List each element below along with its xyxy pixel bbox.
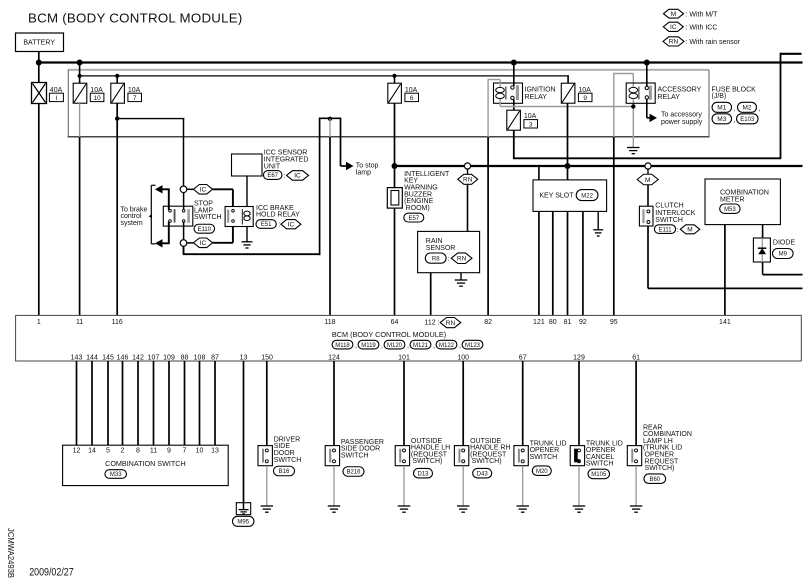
svg-text:118: 118: [324, 319, 335, 326]
svg-text:M: M: [671, 11, 676, 18]
svg-text:SWITCH: SWITCH: [341, 452, 369, 459]
ground M95 (boxed): [232, 503, 254, 527]
bus 1 (battery supply): [39, 61, 803, 63]
top-right exit stub: [781, 53, 802, 55]
combination switch M33: [63, 445, 229, 485]
svg-text:5: 5: [106, 447, 110, 454]
svg-text:7: 7: [183, 447, 187, 454]
wire battery down: [38, 52, 40, 83]
svg-text:67: 67: [519, 354, 527, 361]
svg-text:E110: E110: [198, 227, 212, 233]
svg-text:144: 144: [86, 354, 98, 361]
svg-text:1: 1: [37, 319, 41, 326]
svg-text:2009/02/27: 2009/02/27: [29, 566, 73, 578]
svg-text:JCMWA2493B: JCMWA2493B: [6, 528, 15, 578]
ground B16: [261, 505, 274, 507]
wire to brake control top: [168, 189, 170, 210]
svg-text:141: 141: [719, 319, 731, 326]
fuse 10A 10: [73, 83, 104, 103]
wire buzzer to BCM pin 64: [394, 208, 396, 315]
wire BCM to M105 switch: [578, 361, 580, 446]
svg-text:D43: D43: [477, 471, 489, 477]
riser up to bracket: [319, 118, 321, 255]
svg-text:M123: M123: [465, 343, 481, 349]
svg-text:RN: RN: [457, 256, 467, 263]
wire M20 to ground: [522, 466, 524, 506]
wire fuse3 line to right: [513, 157, 781, 159]
wire accessory output to arrow: [646, 99, 648, 118]
svg-text:,: ,: [734, 117, 736, 124]
fuse 10A 3: [507, 110, 538, 130]
svg-text:10: 10: [196, 447, 204, 454]
svg-text:SENSOR: SENSOR: [426, 245, 456, 252]
switch B216: [325, 439, 384, 476]
svg-text:M118: M118: [335, 343, 350, 349]
wire BCM to D13 switch: [403, 361, 405, 446]
svg-text:13: 13: [211, 447, 219, 454]
wire B60 to ground: [635, 466, 637, 506]
svg-text:(J/B): (J/B): [712, 93, 727, 100]
accessory relay: [626, 83, 701, 103]
svg-text:IC: IC: [670, 24, 677, 31]
svg-text:E57: E57: [408, 216, 419, 222]
svg-text:M: M: [687, 227, 692, 234]
wire switch right pole down: [183, 222, 185, 241]
RN hexagon rain sensor variant: [458, 174, 478, 184]
svg-text:3: 3: [529, 121, 533, 128]
M hexagon clutch variant: [637, 174, 658, 185]
key slot M22: [533, 180, 607, 212]
wire B216 to ground: [333, 466, 335, 506]
svg-text:BATTERY: BATTERY: [23, 39, 55, 46]
svg-text:R8: R8: [432, 256, 440, 262]
svg-text:RELAY: RELAY: [525, 94, 548, 101]
IC hexagon variant bottom: [193, 238, 212, 248]
fuse 10A 9: [561, 83, 592, 103]
svg-text:SWITCH: SWITCH: [530, 454, 558, 461]
svg-text:142: 142: [132, 354, 144, 361]
svg-text:M1: M1: [717, 105, 726, 112]
svg-text:M33: M33: [110, 472, 122, 478]
wire J/B bus to fuse 6: [394, 76, 396, 84]
wire to BCM pin 118: [329, 137, 331, 315]
label intelligent key warning buzzer: [404, 171, 450, 212]
svg-text:150: 150: [261, 354, 273, 361]
svg-text:M120: M120: [387, 343, 403, 349]
gray J/B segment pin118: [329, 119, 331, 137]
clutch interlock switch E111: [639, 203, 699, 234]
fuse block J/B outline: [68, 69, 710, 71]
J/B internal bus: [80, 75, 569, 77]
svg-text:system: system: [121, 220, 143, 227]
svg-text:E51: E51: [261, 222, 272, 228]
svg-text:112 :: 112 :: [424, 319, 439, 326]
junction bus2 fuse6/buzzer: [392, 163, 398, 169]
wire clutch to right exit: [648, 287, 803, 289]
svg-text:101: 101: [398, 354, 410, 361]
wire return to riser: [183, 253, 320, 255]
battery B1: [16, 33, 64, 52]
svg-text:80: 80: [549, 319, 557, 326]
wire M hex to clutch switch: [647, 185, 649, 206]
wire BCM to B16 switch: [266, 361, 268, 446]
svg-text:143: 143: [71, 354, 83, 361]
ignition relay: [494, 83, 556, 103]
svg-text:109: 109: [163, 354, 175, 361]
wire circle2 to hex: [187, 242, 194, 244]
svg-text:E67: E67: [267, 173, 278, 179]
wire relay coil to ground: [246, 227, 248, 242]
wire pin82 to BCM: [487, 137, 489, 315]
svg-text:RN: RN: [446, 320, 456, 327]
svg-text:RN: RN: [669, 39, 679, 46]
svg-text:SWITCH): SWITCH): [412, 458, 442, 465]
svg-text:IC: IC: [288, 222, 295, 229]
legend M: with M/T: [664, 9, 719, 18]
svg-text:: With ICC: : With ICC: [686, 24, 718, 31]
svg-text:COMBINATION: COMBINATION: [720, 189, 769, 196]
rain sensor R8: [418, 231, 480, 272]
svg-text:SWITCH): SWITCH): [472, 458, 502, 465]
svg-text:,: ,: [734, 106, 736, 113]
wire bus1 to accessory contact: [646, 63, 648, 87]
wire fuse10 to BCM pin 11: [79, 137, 81, 315]
BCM box (body control module): [16, 315, 802, 361]
svg-text:6: 6: [410, 95, 414, 102]
gray wire pin82 to ignition coil: [487, 80, 489, 138]
svg-text:,: ,: [459, 343, 461, 350]
junction stop lamp net: [328, 117, 332, 121]
svg-text:64: 64: [391, 319, 399, 326]
junction bus1 accessory relay: [644, 60, 650, 66]
wire branch to stop lamp switch: [117, 118, 184, 120]
svg-text:107: 107: [148, 354, 160, 361]
ICC brake hold relay E51: [225, 205, 301, 229]
svg-text:61: 61: [632, 354, 640, 361]
svg-text:129: 129: [573, 354, 585, 361]
bracket to brake control system: [150, 185, 152, 244]
wire BCM to D43 switch: [462, 361, 464, 446]
switch M105: [570, 440, 623, 478]
svg-text:B60: B60: [649, 477, 660, 483]
gray wire pin95 to accessory coil: [613, 74, 615, 138]
junction battery/bus1: [36, 60, 42, 66]
svg-text:M119: M119: [361, 343, 376, 349]
wire IC hex to relay contact: [213, 188, 233, 190]
wire circle to M hex: [647, 169, 649, 174]
svg-text:M22: M22: [581, 193, 593, 199]
svg-text:88: 88: [181, 354, 189, 361]
connectors M118-M123: [332, 340, 353, 349]
svg-text:11: 11: [76, 319, 83, 326]
wire pin95 to BCM: [613, 137, 615, 315]
wire BCM pin13 to M95: [243, 361, 245, 503]
switch D13: [395, 438, 450, 478]
wire bus1 to J/B bus: [79, 63, 81, 84]
svg-text:I: I: [55, 95, 57, 102]
switch M20: [514, 440, 567, 475]
IC hexagon variant top: [193, 185, 212, 195]
switch B16: [258, 436, 301, 475]
svg-text:,: ,: [433, 343, 435, 350]
svg-text:B216: B216: [346, 470, 361, 476]
svg-text:9: 9: [583, 95, 587, 102]
svg-text:power supply: power supply: [661, 119, 703, 126]
svg-text:To accessory: To accessory: [661, 111, 702, 118]
junction fuse7 branch: [115, 116, 119, 120]
svg-text:14: 14: [88, 447, 96, 454]
wire battery to BCM pin 1: [38, 104, 40, 316]
svg-text:116: 116: [112, 319, 123, 326]
svg-text:HOLD RELAY: HOLD RELAY: [256, 212, 300, 219]
wire RN hex to rain sensor: [467, 184, 469, 231]
svg-text:B16: B16: [279, 469, 290, 475]
key slot outputs to BCM 121 80 81 92: [538, 211, 540, 315]
svg-text:UNIT: UNIT: [264, 164, 281, 171]
wire to brake control bottom: [168, 222, 170, 244]
svg-text:: With M/T: : With M/T: [686, 11, 719, 18]
svg-text:SWITCH: SWITCH: [194, 214, 222, 221]
svg-text:146: 146: [117, 354, 129, 361]
wire fuse6 down to bus2: [394, 103, 396, 166]
svg-text:81: 81: [564, 319, 572, 326]
ground M20: [516, 505, 529, 507]
node circle rain sensor variant: [464, 163, 470, 169]
wire rain sensor ground: [460, 273, 462, 280]
combination meter M53: [705, 179, 780, 225]
wire fuse3 output: [513, 130, 515, 158]
legend RN: with rain sensor: [663, 37, 741, 46]
switch B60: [627, 424, 692, 483]
svg-text:12: 12: [73, 447, 81, 454]
svg-text:M122: M122: [439, 343, 455, 349]
svg-text:IC: IC: [200, 240, 207, 247]
svg-text:ICC SENSOR: ICC SENSOR: [264, 149, 308, 156]
wire key slot ground: [597, 211, 599, 229]
svg-text:,: ,: [759, 106, 761, 113]
svg-text:KEY SLOT: KEY SLOT: [539, 192, 574, 199]
svg-text:RAIN: RAIN: [426, 238, 443, 245]
label fuse block J/B: [712, 87, 761, 125]
node circle stop lamp return: [180, 240, 187, 247]
svg-text:M121: M121: [413, 343, 429, 349]
wire meter to diode: [762, 225, 764, 238]
svg-text:METER: METER: [720, 197, 745, 204]
fusible link 40A I: [32, 83, 64, 104]
ground key slot: [593, 229, 603, 231]
wire switch right pole up: [183, 193, 185, 210]
wire fuse7 to BCM pin 116: [116, 103, 118, 315]
svg-text:121: 121: [533, 319, 545, 326]
ground B60: [630, 505, 643, 507]
svg-text:9: 9: [167, 447, 171, 454]
svg-text:108: 108: [194, 354, 206, 361]
wire diode to right exit: [762, 262, 764, 275]
svg-text:To stop: To stop: [356, 162, 379, 169]
wire rain sensor to BCM pin 112: [430, 273, 432, 316]
svg-text:145: 145: [102, 354, 114, 361]
svg-text:M53: M53: [724, 207, 736, 213]
svg-text:7: 7: [133, 95, 137, 102]
svg-text:RN: RN: [463, 177, 473, 184]
wire fuse10 output gray: [79, 103, 81, 137]
wire ICC unit to relay coil: [246, 175, 248, 206]
legend IC: with ICC: [663, 22, 717, 31]
svg-text:ACCESSORY: ACCESSORY: [658, 87, 702, 94]
svg-text:100: 100: [457, 354, 469, 361]
wire J/B bus corner to fuse 9: [567, 75, 569, 83]
wire J/B bus to fuse 7: [116, 76, 118, 84]
svg-text:M: M: [645, 177, 650, 184]
svg-text:,: ,: [381, 343, 383, 350]
wires BCM to combination switch: [76, 361, 78, 445]
junction bus1 ignition relay: [511, 60, 517, 66]
svg-text:95: 95: [610, 319, 618, 326]
svg-text:INTERLOCK: INTERLOCK: [655, 210, 695, 217]
svg-text:M2: M2: [742, 105, 751, 112]
wire BCM to M20 switch: [522, 361, 524, 446]
svg-text:BCM (BODY CONTROL MODULE): BCM (BODY CONTROL MODULE): [28, 10, 243, 25]
junction bus1 fuse-10 drop: [77, 60, 83, 66]
svg-text::: :: [677, 227, 679, 234]
buzzer E57 (engine room): [387, 166, 424, 222]
wire M105 to ground: [578, 466, 580, 506]
wire fuse9 to key slot: [567, 103, 569, 180]
wire stop lamp return down: [183, 246, 185, 254]
svg-text:lamp: lamp: [356, 169, 371, 176]
svg-text:DIODE: DIODE: [773, 240, 796, 247]
svg-text:CLUTCH: CLUTCH: [655, 203, 683, 210]
wire circle to IC hex: [187, 188, 194, 190]
svg-text:,: ,: [407, 343, 409, 350]
bus 2: [395, 165, 803, 167]
svg-text:124: 124: [328, 354, 340, 361]
node circle clutch variant: [645, 163, 651, 169]
svg-text:M9: M9: [779, 252, 788, 258]
fuse 10A 7: [111, 83, 142, 103]
svg-text:M3: M3: [717, 116, 726, 123]
ground rain sensor: [455, 279, 468, 281]
ground D13: [398, 505, 411, 507]
svg-text:2: 2: [121, 447, 125, 454]
svg-text:IC: IC: [294, 173, 301, 180]
wire BCM to B216 switch: [333, 361, 335, 446]
wire B16 to ground: [266, 466, 268, 506]
wire to stop lamp branch: [340, 118, 342, 166]
svg-text:M20: M20: [536, 469, 548, 475]
ground M105: [573, 505, 586, 507]
svg-text::: :: [283, 173, 285, 180]
ICC sensor integrated unit E67: [232, 149, 309, 180]
wire ignition contact to fuse 3: [513, 100, 515, 111]
diode M9: [753, 238, 795, 262]
svg-text:82: 82: [484, 319, 492, 326]
wire bus1 to ignition contact: [513, 63, 515, 87]
wire D43 to ground: [462, 466, 464, 506]
svg-text:87: 87: [211, 354, 219, 361]
svg-text:SWITCH): SWITCH): [645, 465, 675, 472]
bracket top stop lamp net: [319, 117, 342, 119]
svg-text::: :: [448, 256, 450, 263]
svg-text:BCM (BODY CONTROL MODULE): BCM (BODY CONTROL MODULE): [332, 330, 446, 339]
svg-text:IGNITION: IGNITION: [525, 87, 556, 94]
wire BCM to B60 switch: [635, 361, 637, 446]
wire bus2 to key slot pin: [538, 166, 540, 180]
svg-text:: With rain sensor: : With rain sensor: [686, 39, 741, 46]
svg-text:11: 11: [150, 447, 157, 454]
ground D43: [457, 505, 470, 507]
arrow to accessory power supply: [650, 114, 658, 122]
svg-text:RELAY: RELAY: [658, 94, 681, 101]
svg-text:ROOM): ROOM): [406, 205, 430, 212]
arrow to stop lamp: [346, 162, 354, 170]
svg-text:10: 10: [93, 95, 101, 102]
svg-text:SWITCH: SWITCH: [586, 461, 614, 468]
node circle stop lamp feed: [180, 186, 187, 193]
ground ICC brake hold relay: [242, 241, 253, 243]
svg-text:8: 8: [136, 447, 140, 454]
gray coil ground bus: [499, 99, 501, 107]
svg-text:INTEGRATED: INTEGRATED: [264, 157, 309, 164]
svg-text:M95: M95: [237, 519, 249, 525]
svg-text:D13: D13: [417, 471, 429, 477]
svg-text:13: 13: [240, 354, 248, 361]
svg-text:92: 92: [579, 319, 587, 326]
stop lamp switch E110: [163, 201, 221, 234]
wire D13 to ground: [403, 466, 405, 506]
wire clutch switch down: [647, 226, 649, 288]
wire hex to relay contact bottom: [213, 242, 233, 244]
junction coil ground: [631, 104, 635, 108]
svg-text:COMBINATION SWITCH: COMBINATION SWITCH: [105, 459, 186, 468]
ground B216: [328, 505, 341, 507]
svg-text:SWITCH: SWITCH: [274, 457, 302, 464]
svg-text:M105: M105: [591, 472, 607, 478]
svg-text:IC: IC: [200, 187, 207, 194]
svg-text:,: ,: [355, 343, 357, 350]
wire circle to RN hex: [467, 169, 469, 174]
svg-text:E111: E111: [658, 227, 672, 233]
ground relay coils: [627, 147, 640, 149]
junction bus2 fuse9/keyslot: [565, 163, 571, 169]
svg-text:SWITCH: SWITCH: [655, 217, 683, 224]
wire right vertical to fuse-3 line: [780, 53, 782, 159]
svg-text:E103: E103: [740, 117, 755, 123]
switch D43: [454, 438, 510, 478]
svg-text::: :: [279, 222, 281, 229]
fuse 10A 6: [388, 83, 419, 103]
wire meter to BCM pin 141: [724, 225, 726, 316]
